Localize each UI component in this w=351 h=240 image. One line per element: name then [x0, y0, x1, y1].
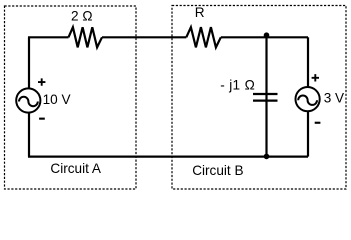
svg-text:R: R: [195, 5, 205, 20]
capacitor C1 bottom plate: [253, 99, 278, 101]
wire top-right segment: [221, 36, 308, 38]
resistor R1 (2 ohm) zigzag: [69, 27, 103, 47]
svg-text:10 V: 10 V: [43, 92, 71, 107]
AC source V2 sine wave: [298, 96, 317, 105]
wire capacitor branch: [265, 37, 267, 156]
enclosure box Circuit A: [5, 6, 137, 189]
wire left branch lower: [28, 113, 30, 157]
junction node bottom: [264, 154, 270, 160]
plus sign of V2: [312, 74, 319, 81]
wire top-middle segment: [102, 36, 186, 38]
junction node top: [264, 32, 270, 38]
AC source V2 circle: [296, 87, 320, 111]
resistor R zigzag: [186, 27, 221, 47]
svg-text:Circuit A: Circuit A: [50, 161, 102, 176]
enclosure box Circuit B: [172, 6, 346, 190]
svg-text:3 V: 3 V: [324, 91, 344, 106]
AC source V1 sine wave: [19, 97, 38, 106]
svg-text:2 Ω: 2 Ω: [71, 8, 93, 23]
wire bottom segment: [28, 156, 308, 158]
wire right branch lower: [307, 111, 309, 157]
wire right branch upper: [307, 37, 309, 88]
svg-text:- j1 Ω: - j1 Ω: [220, 77, 255, 92]
plus sign of V1: [38, 78, 45, 85]
minus sign of V1: [39, 118, 45, 120]
wire left branch upper: [28, 37, 30, 88]
wire top-left segment: [28, 36, 69, 38]
minus sign of V2: [315, 122, 321, 124]
capacitor C1 top plate: [253, 93, 278, 95]
svg-text:Circuit B: Circuit B: [192, 163, 243, 178]
AC source V1 circle: [16, 88, 40, 112]
